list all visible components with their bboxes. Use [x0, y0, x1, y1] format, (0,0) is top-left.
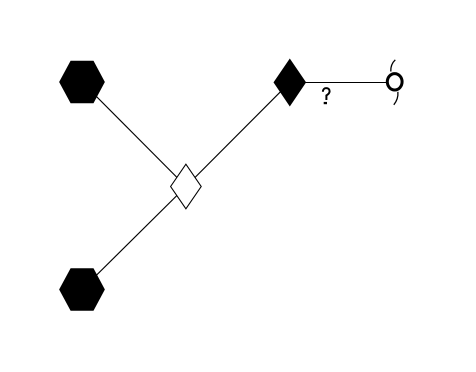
reducing end squiggle bottom	[394, 92, 398, 105]
residue black diamond	[274, 59, 305, 105]
wire: bond black diamond to reducing end	[290, 82, 395, 84]
wire: bond hexose2 to central diamond	[82, 187, 186, 290]
wire: bond central diamond to black diamond	[186, 82, 290, 186]
reducing end squiggle top	[391, 60, 396, 72]
residue hexose1 (filled hexagon, top left)	[60, 61, 105, 102]
wire: bond hexose1 to central diamond	[82, 82, 186, 187]
reducing end circle	[387, 74, 402, 90]
label: unknown linkage "?"	[323, 88, 330, 104]
residue hexose2 (filled hexagon, bottom left)	[60, 269, 105, 310]
residue central white diamond	[171, 164, 202, 209]
